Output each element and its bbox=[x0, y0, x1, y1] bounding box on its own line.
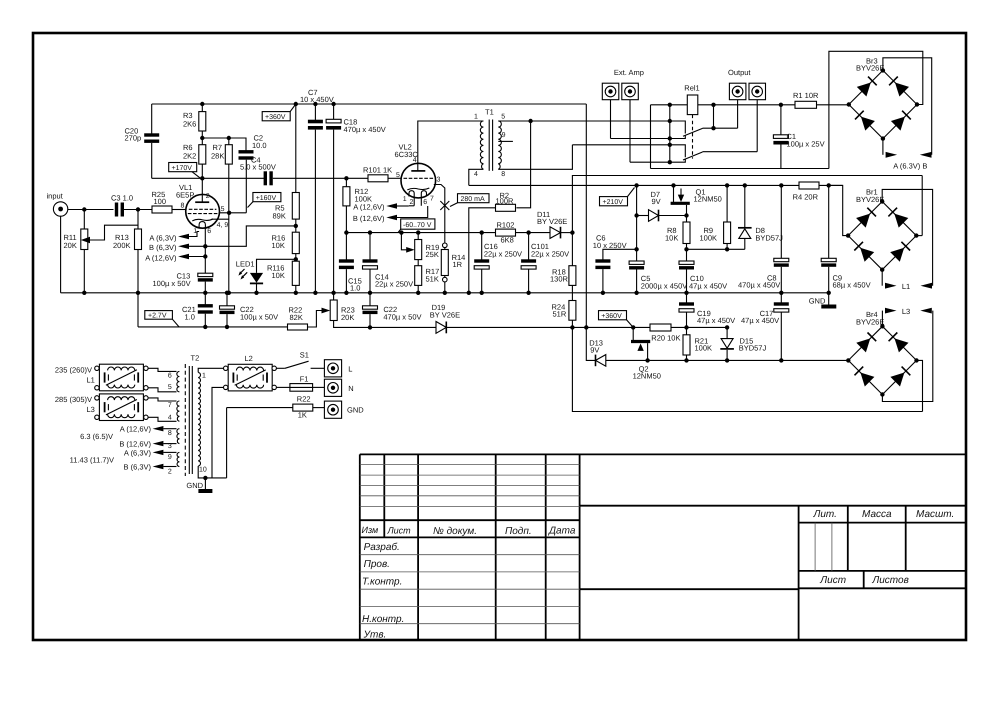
switch S1 bbox=[276, 350, 324, 368]
svg-text:51K: 51K bbox=[426, 274, 439, 283]
svg-text:+160V: +160V bbox=[256, 195, 277, 202]
svg-text:R102: R102 bbox=[497, 221, 515, 230]
resistor R16 bbox=[272, 232, 300, 261]
wire Output2 down bbox=[756, 100, 758, 152]
node A (C3/R13/R25) bbox=[136, 207, 140, 211]
svg-text:GND: GND bbox=[347, 406, 364, 415]
+170V callout bbox=[169, 163, 201, 179]
svg-text:100µ x 50V: 100µ x 50V bbox=[153, 279, 191, 288]
wire R22 to R23 wiper bbox=[308, 311, 325, 328]
T1 pin9 stub bbox=[498, 140, 513, 142]
capacitor C22 470u bbox=[363, 291, 422, 330]
wire VL2 pin3 down through X to R14 bbox=[434, 185, 445, 243]
svg-text:51R: 51R bbox=[553, 310, 567, 319]
svg-text:BYV26E: BYV26E bbox=[856, 318, 884, 327]
capacitor C2 bbox=[239, 134, 267, 213]
Br3 DC+ loop to arrow bbox=[883, 58, 932, 155]
wire VL1 cathode down to C13 bbox=[204, 227, 206, 273]
svg-text:R22: R22 bbox=[297, 394, 311, 403]
svg-text:6: 6 bbox=[168, 372, 172, 379]
svg-text:6: 6 bbox=[207, 228, 211, 235]
wire R13 node down to +2.7V rail bbox=[137, 293, 139, 327]
T1 pin8 wire to riser bbox=[498, 145, 572, 170]
svg-text:68µ x 450V: 68µ x 450V bbox=[833, 281, 871, 290]
ground symbol GND bbox=[809, 293, 837, 307]
resistor R8 bbox=[665, 222, 690, 261]
capacitor C9 bbox=[821, 185, 870, 295]
bridge Br3 bbox=[847, 56, 920, 141]
X current-break mark bbox=[440, 201, 449, 210]
contact2 output line bbox=[703, 151, 758, 153]
diode D19 bbox=[430, 303, 460, 333]
svg-text:280 mA: 280 mA bbox=[461, 196, 485, 203]
contact2 fixed stub from pin8 line bbox=[572, 145, 685, 158]
svg-text:A (12,6V): A (12,6V) bbox=[145, 253, 177, 262]
T1 pin4 wire down to +210 rail bbox=[469, 169, 484, 185]
svg-text:A (12,6V): A (12,6V) bbox=[120, 425, 152, 434]
wire VL2 anode pin4 up to T1 pin1 bbox=[418, 121, 484, 171]
relay common bus vertical bbox=[669, 105, 671, 162]
wire R11 bottom to ground bbox=[83, 250, 85, 293]
svg-text:100µ x 25V: 100µ x 25V bbox=[787, 140, 825, 149]
resistor R20 bbox=[650, 324, 680, 342]
potentiometer R23 bbox=[330, 300, 355, 322]
wire VL1 pin5 to C2 riser bbox=[220, 212, 247, 214]
title block thin rows bbox=[360, 464, 832, 623]
capacitor C17 bbox=[741, 293, 789, 363]
svg-text:R4 20R: R4 20R bbox=[793, 193, 819, 202]
diode D11 bbox=[537, 210, 575, 239]
svg-text:Пров.: Пров. bbox=[364, 559, 390, 570]
capacitor C4 bbox=[240, 155, 276, 185]
wire C13 to ground rail bbox=[204, 282, 206, 293]
svg-text:82K: 82K bbox=[290, 313, 303, 322]
node dot jack/R11 bbox=[82, 207, 86, 211]
svg-text:4: 4 bbox=[474, 171, 478, 178]
relay left edge bbox=[650, 105, 652, 169]
svg-text:7: 7 bbox=[430, 195, 434, 202]
svg-text:10K: 10K bbox=[665, 234, 678, 243]
Br3 DC- stub to arrow bbox=[882, 139, 884, 155]
L1 net arrows bbox=[885, 283, 897, 289]
contact1 fixed stub from pin5 line bbox=[670, 121, 686, 134]
svg-text:6Е5P: 6Е5P bbox=[176, 190, 194, 199]
svg-text:LED1: LED1 bbox=[236, 259, 255, 268]
svg-text:Разраб.: Разраб. bbox=[364, 542, 400, 553]
wire B+ down to R5 bbox=[295, 104, 297, 193]
svg-text:Лист: Лист bbox=[819, 575, 846, 586]
wire R23 top to C18 node bbox=[333, 293, 335, 300]
capacitor C16 bbox=[474, 230, 522, 295]
svg-text:BYD57J: BYD57J bbox=[755, 234, 783, 243]
contact1 blade bbox=[683, 128, 703, 136]
svg-text:+170V: +170V bbox=[172, 165, 193, 172]
+360V rail to R20/D15 bbox=[572, 326, 650, 328]
T1 pin5 wire to relay section bbox=[498, 120, 685, 122]
svg-text:T2: T2 bbox=[191, 353, 200, 362]
filter L3 bbox=[55, 394, 148, 421]
wire R4 node to Br1 bbox=[829, 185, 848, 235]
svg-text:20K: 20K bbox=[341, 313, 354, 322]
wire heater A(12,6V) arrow bbox=[145, 253, 207, 262]
svg-text:T1: T1 bbox=[485, 107, 494, 116]
R8/R9/D8 bottom tie bbox=[687, 248, 745, 250]
svg-text:100: 100 bbox=[154, 197, 167, 206]
relay rail 6.3V bbox=[651, 104, 849, 106]
Br4 right corner to return bus bbox=[916, 360, 922, 411]
LED1 bbox=[236, 259, 296, 295]
ground rail right segment bbox=[602, 292, 829, 294]
capacitor C8 bbox=[738, 183, 789, 295]
wire rail to contact1 output bbox=[713, 105, 715, 128]
svg-text:270p: 270p bbox=[125, 134, 142, 143]
resistor R7 bbox=[211, 138, 232, 213]
svg-text:-60..70 V: -60..70 V bbox=[403, 222, 432, 229]
svg-text:Изм: Изм bbox=[362, 525, 379, 535]
wire node down to R13 bbox=[137, 210, 139, 230]
capacitor C13 bbox=[153, 272, 213, 288]
resistor R14 with terminals bbox=[441, 243, 465, 295]
contact1 common line bbox=[611, 135, 686, 139]
svg-text:+360V: +360V bbox=[265, 114, 286, 121]
Br1 right corner to bias line bbox=[921, 176, 923, 236]
svg-text:8: 8 bbox=[168, 430, 172, 437]
svg-text:Лист: Лист bbox=[387, 525, 412, 535]
Br1 bottom stub to L1 arrow bbox=[881, 270, 883, 286]
capacitor C3 bbox=[111, 193, 133, 216]
Br4 top stub to L3 arrow bbox=[881, 311, 883, 327]
svg-text:1K: 1K bbox=[298, 411, 307, 420]
svg-text:4, 9: 4, 9 bbox=[217, 222, 229, 229]
filter L2 bbox=[224, 354, 277, 391]
capacitor C19 bbox=[679, 293, 735, 330]
input jack J-in bbox=[47, 191, 68, 216]
svg-text:9V: 9V bbox=[652, 197, 661, 206]
title block texts bbox=[362, 509, 955, 640]
capacitor C15 bbox=[339, 233, 362, 295]
wire R23 bottom joins +2.7 rail bbox=[334, 321, 370, 328]
wire D19 to R24 node bbox=[446, 326, 572, 328]
svg-text:B (12,6V): B (12,6V) bbox=[353, 214, 385, 223]
svg-text:1: 1 bbox=[202, 373, 206, 380]
resistor R6 bbox=[183, 143, 206, 181]
resistor R13 bbox=[113, 229, 142, 250]
svg-text:F1: F1 bbox=[300, 374, 309, 383]
svg-text:L: L bbox=[348, 364, 352, 373]
triode VL2 bbox=[395, 143, 441, 206]
svg-text:47µ x 450V: 47µ x 450V bbox=[697, 316, 735, 325]
relay bottom line bbox=[651, 168, 829, 170]
capacitor C5 bbox=[629, 261, 687, 295]
ground symbol at T2 bbox=[186, 478, 212, 491]
node R12/R101 bbox=[344, 176, 348, 180]
Ext.Amp jack 2 bbox=[622, 83, 639, 100]
heater arrow A(12,6V) VL2 bbox=[353, 203, 409, 212]
svg-text:B (12,6V): B (12,6V) bbox=[119, 439, 151, 448]
heater supply arrows A(6.3V)B bbox=[886, 152, 898, 158]
svg-text:2: 2 bbox=[168, 469, 172, 476]
contact1 output line bbox=[703, 127, 738, 129]
resistor R22 82K bbox=[288, 306, 308, 330]
svg-text:Лит.: Лит. bbox=[813, 509, 837, 520]
svg-text:A (6,3V): A (6,3V) bbox=[149, 233, 177, 242]
wire R11 top bbox=[83, 210, 85, 230]
svg-text:6.3 (6.5)V: 6.3 (6.5)V bbox=[80, 432, 113, 441]
Output jack 2 bbox=[749, 83, 766, 100]
svg-text:B (6,3V): B (6,3V) bbox=[149, 243, 177, 252]
L3 net arrows bbox=[885, 308, 897, 314]
svg-text:L3: L3 bbox=[902, 307, 910, 316]
bias line down to return bus bbox=[572, 327, 922, 411]
svg-text:100µ x 50V: 100µ x 50V bbox=[240, 313, 278, 322]
svg-text:Подп.: Подп. bbox=[505, 526, 532, 537]
wire pin5 node down to R2 bbox=[516, 121, 530, 208]
-60..70 V callout bbox=[398, 219, 435, 233]
drawing frame bbox=[33, 33, 966, 640]
+160V callout bbox=[248, 193, 281, 208]
capacitor C18 bbox=[326, 102, 386, 295]
svg-text:Ext. Amp: Ext. Amp bbox=[614, 68, 644, 77]
svg-text:470µ x 450V: 470µ x 450V bbox=[738, 281, 780, 290]
T2 pin10 wire down bbox=[198, 466, 226, 478]
svg-text:BY V26E: BY V26E bbox=[537, 217, 567, 226]
bridge Br4 bbox=[846, 310, 919, 396]
svg-text:4: 4 bbox=[413, 157, 417, 164]
Ext.Amp jack 1 bbox=[602, 83, 619, 100]
grid bias rail bbox=[346, 232, 495, 234]
svg-text:1: 1 bbox=[403, 196, 407, 203]
svg-text:N: N bbox=[348, 384, 353, 393]
wire R13 bottom to ground bbox=[137, 250, 139, 293]
svg-text:GND: GND bbox=[186, 481, 203, 490]
jack L bbox=[324, 360, 352, 377]
svg-text:5: 5 bbox=[396, 172, 400, 179]
svg-text:R20 10K: R20 10K bbox=[651, 333, 680, 342]
svg-text:5: 5 bbox=[221, 206, 225, 213]
wire heater B(6,3V) arrow to riser bbox=[149, 226, 296, 252]
L2 return wire to gnd bus bbox=[212, 387, 224, 478]
wires L1 to T2 taps 6/5 bbox=[148, 368, 176, 371]
svg-text:22µ x 250V: 22µ x 250V bbox=[531, 249, 569, 258]
wire C3 to node bbox=[124, 209, 152, 211]
heater winding arrows bbox=[70, 425, 177, 472]
capacitor C20 bbox=[125, 126, 160, 178]
svg-text:Дата: Дата bbox=[548, 525, 576, 536]
svg-text:1.0: 1.0 bbox=[185, 313, 195, 322]
wire R2 left down to ground bbox=[469, 208, 496, 293]
svg-text:285 (305)V: 285 (305)V bbox=[55, 395, 92, 404]
svg-text:10: 10 bbox=[199, 467, 207, 474]
resistor R24 bbox=[552, 301, 576, 330]
svg-text:2K6: 2K6 bbox=[183, 120, 196, 129]
svg-text:1.0: 1.0 bbox=[350, 284, 360, 293]
contact2 common line bbox=[630, 159, 685, 162]
resistor R3 bbox=[183, 102, 206, 145]
+2.7V callout bbox=[145, 311, 179, 327]
svg-text:input: input bbox=[47, 191, 64, 200]
T2 pin1 wire to L2 bbox=[198, 368, 223, 372]
wire R101 to VL2 grid pin5 bbox=[388, 177, 401, 179]
diode D7 bbox=[637, 190, 689, 221]
diode D13 bbox=[586, 327, 606, 366]
svg-text:Масса: Масса bbox=[862, 509, 892, 520]
B+360 feed riser bbox=[585, 104, 587, 327]
wire R3/R6 junction to C2 bbox=[202, 138, 246, 152]
svg-text:28K: 28K bbox=[211, 151, 224, 160]
svg-text:22µ x 250V: 22µ x 250V bbox=[484, 249, 522, 258]
svg-text:BY V26E: BY V26E bbox=[430, 310, 460, 319]
wire input jack to C3 node bbox=[68, 209, 114, 211]
transformer T2 bbox=[177, 353, 207, 476]
svg-text:6: 6 bbox=[423, 199, 427, 206]
resistor R21 bbox=[683, 327, 712, 362]
wire R7 line down to ground bbox=[228, 213, 230, 293]
svg-text:3: 3 bbox=[437, 177, 441, 184]
svg-text:A (6,3V): A (6,3V) bbox=[124, 448, 152, 457]
triode VL1 bbox=[176, 183, 228, 235]
resistor R5 bbox=[273, 193, 300, 233]
relay coil Rel1 bbox=[684, 83, 699, 158]
svg-text:10.0: 10.0 bbox=[252, 141, 267, 150]
jack N bbox=[324, 379, 353, 396]
svg-text:2: 2 bbox=[206, 193, 210, 200]
capacitor C7 bbox=[300, 88, 334, 295]
transformer T1 bbox=[474, 107, 506, 178]
bias bottom rail to Br4 bbox=[606, 359, 848, 361]
svg-text:Rel1: Rel1 bbox=[684, 83, 699, 92]
svg-text:Масшт.: Масшт. bbox=[916, 509, 954, 520]
svg-text:4: 4 bbox=[168, 414, 172, 421]
resistor R25 bbox=[152, 190, 173, 213]
wires L3 to T2 taps 7/4 bbox=[148, 398, 176, 401]
svg-text:A (6.3V) B: A (6.3V) B bbox=[893, 161, 927, 170]
svg-text:A (12,6V): A (12,6V) bbox=[353, 203, 385, 212]
Output jack 1 bbox=[729, 83, 746, 100]
potentiometer R19 bbox=[399, 230, 439, 259]
wire ExtAmp2 down bbox=[629, 100, 631, 163]
svg-text:89K: 89K bbox=[273, 212, 286, 221]
svg-text:9: 9 bbox=[502, 132, 506, 139]
resistor R9 bbox=[700, 183, 731, 251]
bias riser D11 node bbox=[572, 176, 922, 233]
svg-text:R101 1K: R101 1K bbox=[363, 165, 392, 174]
svg-text:470µ x 450V: 470µ x 450V bbox=[344, 125, 386, 134]
svg-text:10K: 10K bbox=[272, 271, 285, 280]
zener D8 bbox=[738, 183, 783, 249]
resistor R12 bbox=[343, 178, 372, 235]
resistor R2 bbox=[496, 191, 516, 211]
svg-text:+360V: +360V bbox=[601, 313, 622, 320]
svg-text:11.43 (11.7)V: 11.43 (11.7)V bbox=[70, 455, 114, 464]
+360V callout lower bbox=[599, 311, 634, 328]
filter L1 bbox=[55, 364, 148, 391]
contact2 blade bbox=[683, 152, 703, 160]
svg-text:BYV26E: BYV26E bbox=[856, 64, 884, 73]
svg-text:100K: 100K bbox=[695, 344, 713, 353]
svg-text:L2: L2 bbox=[245, 354, 253, 363]
svg-text:+210V: +210V bbox=[603, 199, 624, 206]
zener D15 bbox=[720, 325, 766, 362]
svg-text:C3 1.0: C3 1.0 bbox=[111, 193, 133, 202]
svg-text:L1: L1 bbox=[87, 376, 95, 385]
wire C5/D7 node riser bbox=[634, 183, 638, 187]
svg-text:47µ x 450V: 47µ x 450V bbox=[689, 281, 727, 290]
+360V callout top bbox=[262, 102, 298, 121]
svg-text:470µ x 50V: 470µ x 50V bbox=[383, 313, 421, 322]
svg-text:25K: 25K bbox=[426, 250, 439, 259]
svg-text:Утв.: Утв. bbox=[363, 629, 387, 640]
wire C20 top bbox=[151, 104, 153, 135]
svg-text:Т.контр.: Т.контр. bbox=[362, 576, 402, 587]
svg-text:10K: 10K bbox=[272, 241, 285, 250]
MOSFET Q1 bbox=[671, 183, 722, 222]
svg-text:GND: GND bbox=[809, 297, 826, 306]
svg-text:9V: 9V bbox=[590, 345, 599, 354]
wire Output1 down bbox=[737, 100, 739, 129]
svg-text:L3: L3 bbox=[87, 405, 95, 414]
svg-text:8: 8 bbox=[501, 171, 505, 178]
+210V rail bbox=[469, 184, 843, 186]
wire input jack down to ground rail bbox=[60, 216, 62, 293]
capacitor C6 bbox=[593, 234, 637, 295]
+210V callout bbox=[600, 188, 635, 207]
svg-text:B (6,3V): B (6,3V) bbox=[123, 463, 151, 472]
280 mA callout bbox=[450, 194, 489, 207]
resistor R102 bbox=[496, 221, 516, 245]
svg-text:L1: L1 bbox=[902, 282, 910, 291]
svg-text:BYD57J: BYD57J bbox=[739, 344, 767, 353]
svg-text:1: 1 bbox=[474, 114, 478, 121]
wire VL1 pin2 anode up to +170V rail bbox=[201, 178, 203, 202]
wire pin 4,9 stub bbox=[212, 218, 230, 220]
capacitor C14 bbox=[363, 230, 414, 292]
svg-text:2K2: 2K2 bbox=[183, 151, 196, 160]
svg-text:8: 8 bbox=[181, 203, 185, 210]
svg-text:5: 5 bbox=[168, 384, 172, 391]
capacitor C10 bbox=[679, 261, 727, 295]
+2.7V rail bbox=[138, 326, 288, 328]
resistor R18 bbox=[550, 233, 576, 301]
svg-text:BYV26E: BYV26E bbox=[856, 195, 884, 204]
svg-text:1R: 1R bbox=[453, 260, 463, 269]
Br4 bottom loop to L3 arrow bbox=[882, 311, 932, 402]
wire R102 to D11 bbox=[516, 232, 551, 234]
svg-text:+2.7V: +2.7V bbox=[148, 313, 167, 320]
svg-text:100R: 100R bbox=[496, 196, 515, 205]
wire ExtAmp1 down bbox=[610, 100, 612, 139]
svg-text:9: 9 bbox=[168, 454, 172, 461]
svg-text:Листов: Листов bbox=[871, 575, 908, 586]
svg-text:22µ x 250V: 22µ x 250V bbox=[375, 280, 413, 289]
+170V anode rail bbox=[152, 177, 266, 179]
title block outer bbox=[360, 454, 966, 641]
potentiometer R11 bbox=[64, 225, 139, 250]
resistor R17 bbox=[415, 260, 440, 295]
resistor R1 bbox=[793, 91, 819, 108]
svg-text:2000µ x 450V: 2000µ x 450V bbox=[641, 281, 687, 290]
svg-text:7: 7 bbox=[168, 402, 172, 409]
capacitor C1 bbox=[773, 103, 824, 169]
wire R20 to R21/C19 node bbox=[671, 326, 727, 328]
svg-text:12NM50: 12NM50 bbox=[694, 195, 722, 204]
svg-text:200K: 200K bbox=[113, 241, 131, 250]
wire heater A(6,3V) arrow to pin1 bbox=[149, 232, 199, 243]
svg-text:R1 10R: R1 10R bbox=[793, 91, 819, 100]
resistor R101 bbox=[363, 165, 392, 182]
capacitor C22 100u bbox=[220, 291, 279, 330]
resistor R116 bbox=[267, 261, 299, 295]
svg-text:5: 5 bbox=[501, 114, 505, 121]
